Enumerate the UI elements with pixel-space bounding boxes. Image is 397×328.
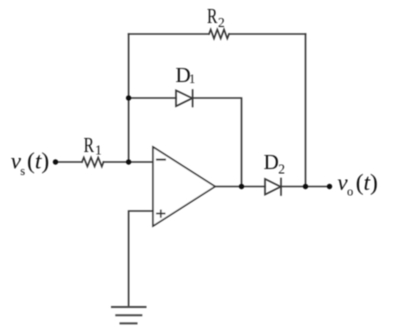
node D1 junction — [126, 95, 131, 100]
ground — [112, 307, 146, 323]
node D1-output junction — [239, 184, 244, 189]
svg-text:(t): (t) — [27, 149, 49, 175]
svg-text:s: s — [20, 164, 25, 178]
resistor R1 — [82, 158, 104, 167]
svg-text:2: 2 — [218, 15, 225, 30]
wire D1 branch left segment — [129, 97, 176, 99]
wire left vertical from top to inverting node — [128, 34, 130, 162]
wire R1 to inverting input — [104, 161, 154, 163]
wire D2 to output terminal — [281, 186, 329, 188]
wire op-amp output to D2 — [215, 186, 265, 188]
wire D1 branch right segment and drop to output — [193, 98, 242, 187]
svg-text:R: R — [84, 133, 94, 157]
diode D1 cathode bar — [192, 90, 194, 107]
diode D2 — [265, 179, 281, 195]
op-amp plus pin label — [156, 210, 165, 218]
resistor R2 — [209, 30, 229, 39]
wire noninverting input — [129, 211, 153, 307]
svg-text:2: 2 — [278, 162, 285, 177]
svg-text:o: o — [347, 185, 353, 199]
op-amp U1 — [153, 147, 215, 226]
svg-text:1: 1 — [189, 72, 195, 86]
wire input to R1 — [56, 161, 83, 163]
wire top-left feedback run — [129, 33, 209, 35]
op-amp minus pin label — [156, 159, 166, 161]
svg-text:D: D — [264, 150, 279, 174]
wire top-right feedback run — [229, 33, 306, 35]
wire right vertical from R2 to output node — [305, 34, 307, 187]
diode D1 — [176, 90, 192, 106]
svg-text:(t): (t) — [356, 170, 378, 196]
svg-text:1: 1 — [95, 142, 102, 157]
node input terminal — [53, 159, 58, 164]
svg-text:R: R — [207, 4, 217, 28]
node R2-output junction — [303, 184, 308, 189]
diode D2 cathode bar — [280, 179, 282, 196]
node inverting junction — [126, 159, 131, 164]
node output terminal — [327, 184, 332, 189]
